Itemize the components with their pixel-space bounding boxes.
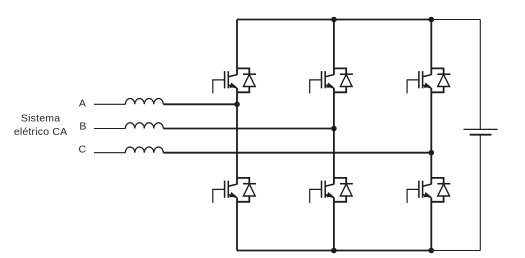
diode D1 (antiparallel)	[237, 68, 256, 92]
node: phase C junction	[429, 150, 435, 156]
transistor Q6 (IGBT)	[407, 181, 431, 203]
diode D5 (antiparallel)	[334, 178, 353, 202]
wire: phase C to leg	[163, 152, 431, 154]
transistor Q1 (IGBT)	[213, 71, 237, 93]
node: bottom rail / leg C junction	[429, 248, 435, 254]
wire: phase B source lead	[94, 128, 126, 130]
wire: battery branch vertical (upper)	[479, 20, 481, 130]
wire: leg C upper segment	[430, 20, 432, 75]
svg-text:B: B	[79, 121, 86, 133]
wire: positive DC rail (top)	[237, 19, 431, 21]
svg-text:C: C	[79, 144, 87, 156]
svg-text:Sistema: Sistema	[21, 113, 60, 125]
wire: bottom rail extension to battery	[431, 250, 480, 252]
node: phase B junction	[331, 126, 337, 132]
transistor Q5 (IGBT)	[310, 181, 334, 203]
diode D6 (antiparallel)	[431, 178, 450, 202]
inductor L2 (phase B)	[125, 123, 163, 129]
transistor Q4 (IGBT)	[213, 181, 237, 203]
transistor Q3 (IGBT)	[407, 71, 431, 93]
svg-text:A: A	[79, 97, 86, 109]
diode D4 (antiparallel)	[237, 178, 256, 202]
wire: phase A source lead	[94, 103, 126, 105]
diode D2 (antiparallel)	[334, 68, 353, 92]
svg-text:elétrico CA: elétrico CA	[14, 126, 68, 138]
wire: phase A to leg	[163, 103, 237, 105]
battery (DC source): long positive plate	[464, 128, 498, 130]
wire: battery branch vertical (lower)	[479, 135, 481, 251]
wire: phase B to leg	[163, 128, 334, 130]
wire: leg A upper segment	[236, 20, 238, 75]
transistor Q2 (IGBT)	[310, 71, 334, 93]
wire: leg A middle segment	[236, 88, 238, 184]
battery (DC source): short negative plate	[470, 134, 492, 136]
wire: leg B lower segment	[333, 197, 335, 250]
inductor L1 (phase A)	[125, 99, 163, 105]
diode D3 (antiparallel)	[431, 68, 450, 92]
node: top rail / leg B junction	[331, 17, 337, 23]
node: top rail / leg C junction	[429, 17, 435, 23]
wire: leg B upper segment	[333, 20, 335, 75]
node: bottom rail / leg B junction	[331, 248, 337, 254]
wire: phase C source lead	[94, 152, 126, 154]
wire: top rail extension to battery	[431, 19, 480, 21]
wire: leg B middle segment	[333, 88, 335, 184]
inductor L3 (phase C)	[125, 147, 163, 153]
wire: leg C lower segment	[430, 197, 432, 250]
wire: leg C middle segment	[430, 88, 432, 184]
wire: negative DC rail (bottom)	[237, 250, 431, 252]
node: phase A junction	[234, 102, 240, 108]
wire: leg A lower segment	[236, 197, 238, 250]
